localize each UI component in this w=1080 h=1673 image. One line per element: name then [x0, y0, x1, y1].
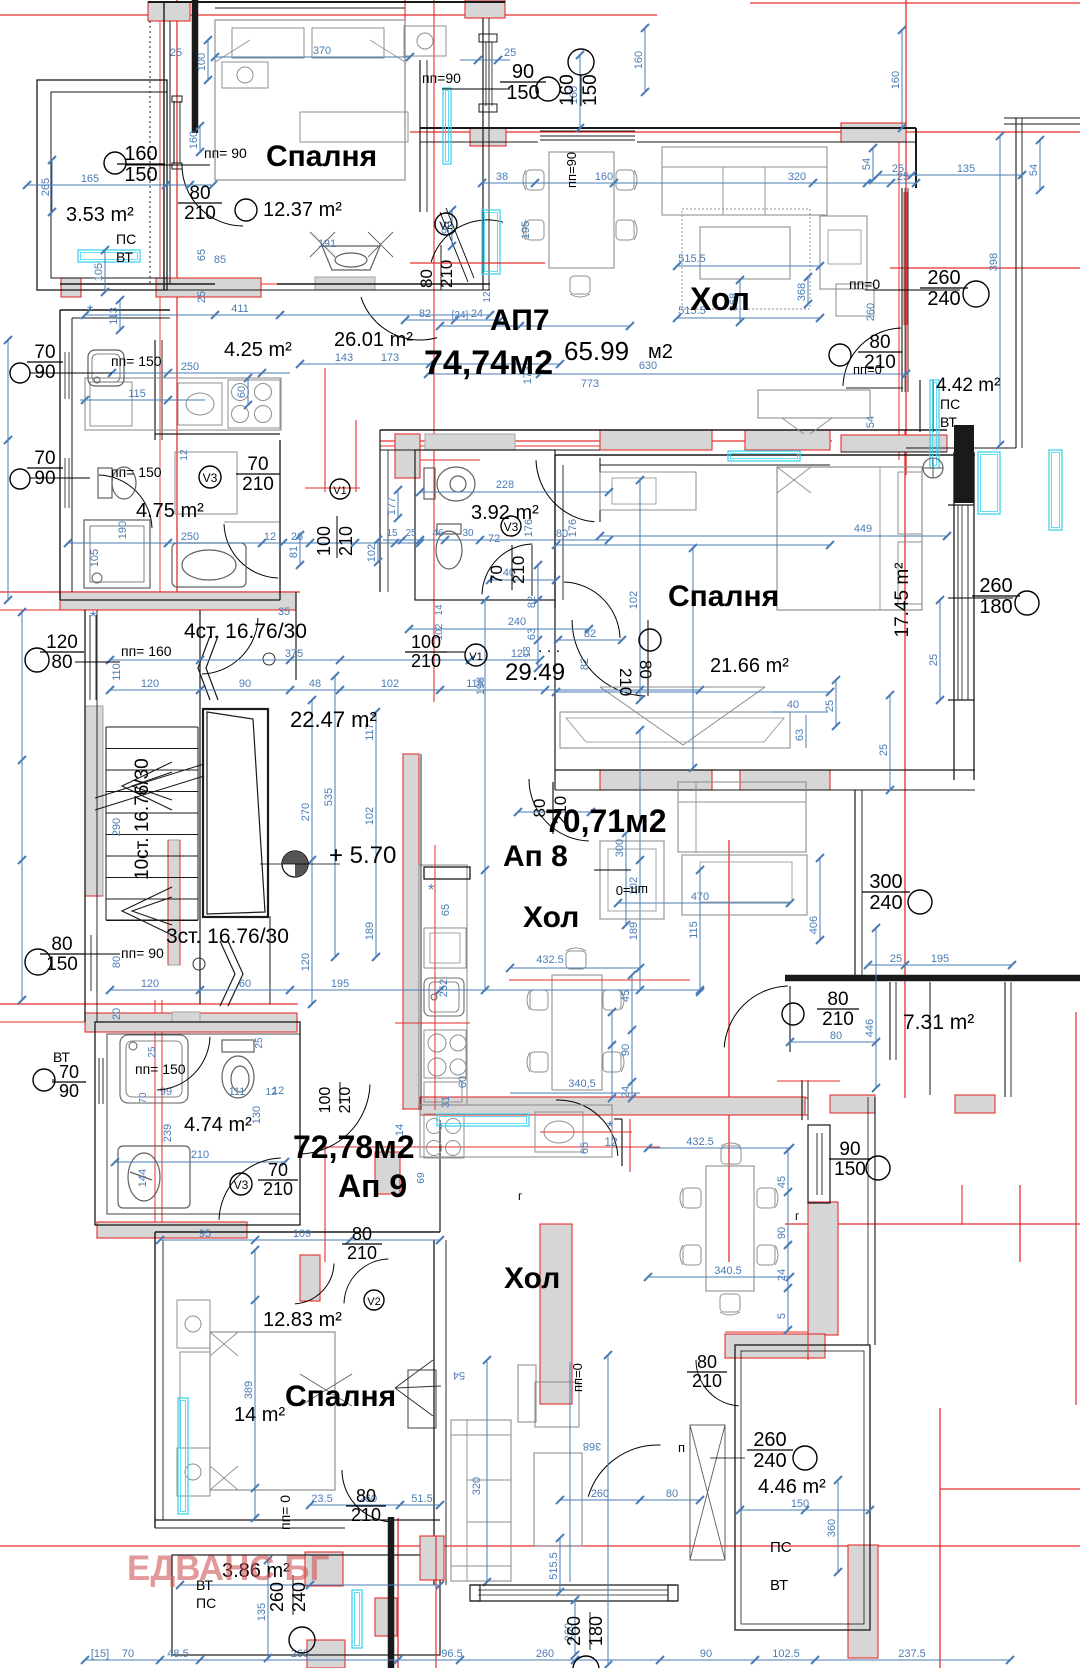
- svg-text:80: 80: [51, 652, 72, 673]
- svg-text:535: 535: [323, 788, 335, 806]
- svg-text:65: 65: [196, 249, 208, 261]
- svg-text:63: 63: [526, 628, 538, 640]
- svg-text:240: 240: [927, 288, 960, 310]
- window strips stair wall: [89, 615, 91, 700]
- svg-text:82: 82: [584, 628, 596, 640]
- svg-text:210: 210: [242, 474, 274, 495]
- svg-text:198: 198: [475, 677, 487, 695]
- svg-text:29.49: 29.49: [505, 659, 565, 686]
- svg-text:12: 12: [604, 1135, 618, 1149]
- svg-text:195: 195: [931, 953, 949, 965]
- bed AP7: [215, 20, 405, 180]
- svg-text:290: 290: [111, 818, 123, 836]
- staircase treads: [106, 726, 198, 728]
- svg-text:пп=90: пп=90: [422, 70, 461, 86]
- svg-text:368: 368: [583, 1440, 601, 1452]
- svg-text:210: 210: [191, 1149, 209, 1161]
- svg-text:210: 210: [411, 651, 441, 671]
- svg-text:ПС: ПС: [940, 396, 960, 412]
- svg-text:80: 80: [189, 183, 210, 204]
- svg-text:[15]: [15]: [91, 1648, 109, 1660]
- room 4.46 bottom right: [735, 1345, 870, 1630]
- svg-text:250: 250: [181, 361, 199, 373]
- dining set AP7: [549, 152, 614, 268]
- svg-text:65.99: 65.99: [564, 336, 629, 366]
- svg-text:4.25 m²: 4.25 m²: [224, 339, 292, 361]
- svg-text:48: 48: [309, 678, 321, 690]
- bathroom 4.75: [60, 599, 280, 601]
- svg-text:130: 130: [251, 1106, 263, 1124]
- svg-text:375: 375: [285, 648, 303, 660]
- svg-text:20: 20: [111, 1008, 123, 1020]
- svg-text:406: 406: [808, 916, 820, 934]
- svg-text:100: 100: [314, 526, 334, 556]
- shower bath1: [175, 452, 237, 514]
- svg-text:12: 12: [264, 531, 276, 543]
- svg-text:70,71м2: 70,71м2: [545, 803, 667, 839]
- corridor walls: [295, 592, 297, 680]
- svg-text:V3: V3: [504, 520, 519, 534]
- svg-text:260: 260: [979, 575, 1012, 597]
- svg-text:190: 190: [117, 521, 129, 539]
- svg-text:300: 300: [614, 839, 626, 857]
- svg-text:102: 102: [628, 591, 640, 609]
- svg-text:4.75 m²: 4.75 m²: [136, 500, 204, 522]
- svg-text:ЕДВАНС БГ: ЕДВАНС БГ: [127, 1549, 330, 1588]
- svg-text:38: 38: [496, 171, 508, 183]
- kitchen AP7: [85, 378, 281, 430]
- svg-text:111: 111: [229, 1086, 246, 1098]
- svg-text:115: 115: [688, 921, 700, 939]
- svg-text:143: 143: [335, 352, 353, 364]
- top right outer thin wall: [1015, 118, 1017, 448]
- AP8 entry door: [529, 779, 589, 841]
- svg-text:шп=0: шп=0: [616, 883, 648, 898]
- svg-text:210: 210: [822, 1009, 854, 1030]
- svg-text:п: п: [678, 1440, 685, 1455]
- svg-text:ПС: ПС: [196, 1595, 216, 1611]
- svg-text:165: 165: [81, 173, 99, 185]
- svg-text:260: 260: [753, 1429, 786, 1451]
- tv AP8 bedroom: [600, 687, 765, 745]
- svg-text:45: 45: [776, 1176, 788, 1188]
- svg-text:210: 210: [347, 1243, 377, 1263]
- svg-text:100: 100: [317, 1087, 334, 1114]
- svg-text:74,74м2: 74,74м2: [424, 344, 553, 382]
- svg-text:3ст. 16.76/30: 3ст. 16.76/30: [166, 925, 289, 948]
- svg-text:V1: V1: [333, 485, 346, 497]
- svg-text:14: 14: [394, 1124, 406, 1136]
- svg-text:260: 260: [591, 1488, 609, 1500]
- svg-text:96.5: 96.5: [441, 1648, 462, 1660]
- svg-text:135: 135: [957, 163, 975, 175]
- svg-text:252: 252: [438, 979, 450, 997]
- svg-text:144: 144: [137, 1169, 149, 1187]
- svg-text:70: 70: [138, 1092, 149, 1104]
- svg-text:35: 35: [278, 606, 290, 618]
- sofa AP7: [662, 147, 827, 215]
- svg-text:120: 120: [141, 978, 159, 990]
- blue dims top: [215, 56, 410, 58]
- svg-text:240: 240: [753, 1450, 786, 1472]
- blue dims bottom right: [740, 1509, 870, 1511]
- svg-text:70: 70: [34, 342, 55, 363]
- svg-text:80: 80: [827, 989, 848, 1010]
- svg-text:210: 210: [263, 1179, 293, 1199]
- svg-text:*: *: [87, 303, 93, 320]
- blue dims AP9 area: [160, 1239, 440, 1241]
- svg-text:24: 24: [620, 1086, 632, 1098]
- svg-text:210: 210: [437, 260, 456, 288]
- svg-text:63: 63: [794, 729, 806, 741]
- svg-text:V2: V2: [439, 220, 452, 232]
- stair arrows: [198, 636, 218, 700]
- svg-text:228: 228: [496, 479, 514, 491]
- terrace AP7 walls: [37, 80, 167, 290]
- svg-text:72: 72: [488, 533, 500, 545]
- svg-text:25: 25: [504, 47, 516, 59]
- dresser AP8: [600, 472, 696, 510]
- svg-text:25: 25: [196, 291, 208, 303]
- svg-text:160: 160: [595, 171, 613, 183]
- svg-text:V3: V3: [203, 471, 218, 485]
- svg-text:102: 102: [366, 544, 378, 562]
- AP7 hall top wall with window: [420, 127, 916, 129]
- svg-text:12: 12: [179, 449, 190, 461]
- svg-text:Хол: Хол: [523, 901, 579, 934]
- cupboard AP7 kitchen: [88, 350, 124, 386]
- svg-text:210: 210: [351, 1505, 381, 1525]
- svg-text:ВТ: ВТ: [940, 414, 957, 430]
- svg-text:102: 102: [364, 807, 376, 825]
- svg-text:80: 80: [356, 1486, 376, 1506]
- crosshair symbol: [923, 458, 943, 478]
- svg-text:109: 109: [293, 1228, 311, 1240]
- svg-text:432.5: 432.5: [536, 954, 564, 966]
- bottom window AP9 hall: [470, 1584, 677, 1586]
- svg-text:340,5: 340,5: [568, 1078, 596, 1090]
- svg-text:180: 180: [586, 1616, 606, 1646]
- svg-text:80: 80: [556, 528, 568, 540]
- svg-text:г: г: [795, 1209, 800, 1223]
- svg-text:80: 80: [697, 1352, 717, 1372]
- svg-text:ПС: ПС: [770, 1539, 792, 1556]
- sofa AP8: [678, 782, 806, 852]
- svg-text:100: 100: [411, 632, 441, 652]
- svg-text:12.37 m²: 12.37 m²: [263, 199, 342, 221]
- svg-text:411: 411: [231, 303, 249, 315]
- blue dims AP8 right: [875, 928, 877, 1088]
- svg-text:105: 105: [89, 549, 101, 567]
- svg-text:102.5: 102.5: [772, 1648, 800, 1660]
- svg-text:V1: V1: [469, 651, 482, 663]
- svg-text:24: 24: [471, 308, 483, 320]
- svg-text:115: 115: [128, 388, 146, 400]
- svg-text:4.46 m²: 4.46 m²: [758, 1476, 826, 1498]
- svg-text:260: 260: [536, 1648, 554, 1660]
- svg-text:65: 65: [579, 1142, 591, 1154]
- AP9 bathroom: [95, 1022, 300, 1225]
- level marker: [282, 851, 308, 877]
- svg-text:120: 120: [300, 953, 312, 971]
- AP8 hall/balcony walls: [854, 790, 856, 978]
- svg-text:пп=90: пп=90: [564, 152, 579, 188]
- AP7 hall bottom wall: [380, 429, 947, 431]
- red axis lines: [0, 14, 657, 16]
- svg-text:80: 80: [636, 660, 655, 679]
- svg-text:69: 69: [416, 1172, 427, 1184]
- svg-text:70: 70: [34, 448, 55, 469]
- svg-text:80: 80: [869, 332, 890, 353]
- balcony 7.31 walls: [1004, 982, 1006, 1097]
- svg-text:60: 60: [236, 386, 248, 398]
- svg-text:177: 177: [386, 497, 398, 515]
- toilet bath2: [424, 467, 475, 501]
- bench AP7 bottom: [758, 390, 870, 418]
- carpet AP7: [682, 209, 810, 309]
- svg-text:25: 25: [170, 47, 182, 59]
- svg-text:398: 398: [988, 253, 1000, 271]
- svg-text:85: 85: [214, 254, 226, 266]
- svg-text:515.5: 515.5: [678, 253, 706, 265]
- cabinet AP8 hall left: [600, 841, 664, 919]
- svg-text:150: 150: [580, 74, 601, 106]
- svg-text:15: 15: [386, 528, 398, 539]
- gray wall blocks: [148, 2, 190, 21]
- svg-text:АП7: АП7: [490, 304, 550, 337]
- svg-text:51.5: 51.5: [411, 1493, 432, 1505]
- svg-text:Ап 8: Ап 8: [503, 840, 568, 873]
- tv cabinet AP9: [518, 1365, 536, 1422]
- svg-text:14 m²: 14 m²: [234, 1404, 285, 1426]
- svg-text:90: 90: [512, 61, 534, 83]
- svg-text:Спалня: Спалня: [285, 1380, 396, 1413]
- svg-text:260: 260: [865, 303, 877, 321]
- svg-text:160: 160: [633, 51, 645, 69]
- svg-text:95: 95: [199, 1228, 211, 1240]
- svg-text:м2: м2: [648, 341, 673, 363]
- svg-text:22.47 m²: 22.47 m²: [290, 707, 377, 732]
- AP7 bedroom walls: [148, 1, 505, 3]
- svg-text:пп= 90: пп= 90: [204, 145, 247, 161]
- svg-text:320: 320: [471, 1477, 483, 1495]
- bedside tables: [222, 62, 268, 88]
- svg-text:389: 389: [243, 1381, 255, 1399]
- svg-text:105: 105: [93, 263, 105, 281]
- svg-text:4.74 m²: 4.74 m²: [184, 1114, 252, 1136]
- svg-text:102: 102: [381, 678, 399, 690]
- svg-text:90: 90: [839, 1139, 860, 1160]
- svg-text:470: 470: [691, 891, 709, 903]
- svg-text:пп=0: пп=0: [570, 1363, 585, 1392]
- svg-text:+ 5.70: + 5.70: [329, 842, 396, 869]
- dining set AP9: [706, 1166, 754, 1291]
- svg-text:210: 210: [336, 526, 356, 556]
- svg-text:368: 368: [796, 283, 808, 301]
- kitchen AP8: [419, 865, 467, 1105]
- svg-text:80: 80: [51, 934, 72, 955]
- svg-text:30: 30: [462, 528, 474, 539]
- tv cabinet AP8: [682, 855, 807, 915]
- svg-text:189: 189: [364, 922, 376, 940]
- svg-text:90: 90: [239, 678, 251, 690]
- svg-text:80: 80: [352, 1224, 372, 1244]
- svg-text:45: 45: [620, 990, 632, 1002]
- thick bar middle right: [785, 975, 1080, 982]
- blue dims AP8 bedroom: [600, 535, 947, 537]
- svg-text:432.5: 432.5: [686, 1136, 714, 1148]
- toilet AP9: [222, 1040, 254, 1098]
- svg-text:25: 25: [254, 1037, 265, 1049]
- svg-text:210: 210: [864, 352, 896, 373]
- dining set AP8: [552, 975, 602, 1090]
- armchair AP9 bedroom: [408, 1370, 436, 1428]
- svg-text:17.45 m²: 17.45 m²: [892, 563, 913, 638]
- svg-text:г: г: [518, 1189, 523, 1203]
- svg-text:237.5: 237.5: [898, 1648, 926, 1660]
- svg-text:210: 210: [616, 668, 635, 696]
- stair cut lines: [95, 776, 204, 810]
- svg-text:3.53 m²: 3.53 m²: [66, 204, 134, 226]
- svg-text:48.5: 48.5: [167, 1648, 188, 1660]
- svg-text:25: 25: [928, 654, 940, 666]
- svg-text:300: 300: [869, 871, 902, 893]
- svg-text:25: 25: [890, 953, 902, 965]
- toilet bath1: [98, 467, 136, 499]
- svg-text:80: 80: [417, 269, 436, 288]
- elevator: [203, 709, 268, 917]
- bed AP8: [777, 467, 922, 610]
- svg-text:370: 370: [313, 45, 331, 57]
- coffee table AP9: [534, 1453, 582, 1546]
- svg-text:120: 120: [141, 678, 159, 690]
- svg-text:90: 90: [620, 1044, 632, 1056]
- svg-text:Хол: Хол: [504, 1262, 560, 1295]
- svg-text:160: 160: [124, 143, 157, 165]
- svg-text:449: 449: [854, 523, 872, 535]
- svg-text:12: 12: [482, 291, 493, 303]
- sink bath2: [436, 524, 462, 569]
- svg-text:191: 191: [318, 238, 336, 250]
- svg-text:189: 189: [628, 922, 640, 940]
- sink AP9: [118, 1146, 190, 1208]
- svg-text:515.5: 515.5: [548, 1552, 560, 1580]
- kitchen AP9 end wall: [621, 1119, 623, 1166]
- svg-text:82: 82: [579, 658, 591, 670]
- svg-text:25: 25: [147, 1046, 158, 1058]
- svg-text:пп= 0: пп= 0: [277, 1495, 293, 1530]
- svg-text:210: 210: [692, 1371, 722, 1391]
- svg-text:100: 100: [196, 53, 208, 71]
- svg-text:25: 25: [824, 700, 836, 712]
- svg-text:120: 120: [46, 632, 78, 653]
- svg-text:82: 82: [419, 308, 431, 320]
- svg-text:446: 446: [864, 1019, 876, 1037]
- svg-text:240: 240: [869, 892, 902, 914]
- svg-text:Хол: Хол: [690, 281, 750, 317]
- svg-text:14: 14: [434, 604, 445, 616]
- window right wall AP9: [808, 1125, 830, 1203]
- svg-text:180: 180: [979, 596, 1012, 618]
- svg-text:260: 260: [927, 267, 960, 289]
- svg-text:265: 265: [40, 178, 52, 196]
- svg-text:195: 195: [331, 978, 349, 990]
- shower AP9 bath: [120, 1035, 188, 1103]
- svg-text:24: 24: [776, 1269, 788, 1281]
- svg-text:54: 54: [1028, 164, 1040, 176]
- radiators: [78, 250, 140, 262]
- svg-text:60: 60: [457, 1076, 469, 1088]
- svg-text:360: 360: [826, 1519, 838, 1537]
- svg-text:5: 5: [776, 1313, 788, 1319]
- svg-text:160: 160: [188, 131, 200, 149]
- svg-text:10ст. 16.76/30: 10ст. 16.76/30: [132, 758, 153, 880]
- wall kitchen/hall: [419, 60, 421, 212]
- svg-text:80: 80: [666, 1488, 678, 1500]
- svg-text:26.01 m²: 26.01 m²: [334, 329, 413, 351]
- svg-text:70: 70: [122, 1648, 134, 1660]
- svg-text:239: 239: [162, 1124, 174, 1142]
- svg-text:23.5: 23.5: [311, 1493, 332, 1505]
- thick bar bottom: [388, 1517, 395, 1668]
- svg-text:210: 210: [184, 203, 216, 224]
- svg-text:40: 40: [787, 699, 799, 711]
- svg-text:ВТ: ВТ: [116, 249, 133, 265]
- svg-text:773: 773: [581, 378, 599, 390]
- svg-text:[24]: [24]: [452, 310, 469, 321]
- svg-text:81: 81: [288, 546, 300, 558]
- right mid outer wall: [874, 1097, 876, 1345]
- svg-text:90: 90: [59, 1081, 79, 1101]
- svg-text:54: 54: [453, 1369, 465, 1381]
- svg-text:*: *: [607, 1119, 613, 1136]
- svg-text:V2: V2: [367, 1296, 380, 1308]
- svg-text:*: *: [428, 882, 434, 899]
- sink bath1: [172, 543, 246, 587]
- AP7 hall right window wall: [901, 188, 903, 392]
- svg-text:65: 65: [440, 904, 452, 916]
- svg-text:176: 176: [567, 519, 579, 537]
- bathroom 3.92: [415, 450, 555, 600]
- svg-text:113: 113: [108, 307, 120, 325]
- svg-text:25: 25: [892, 163, 904, 175]
- svg-text:12.83 m²: 12.83 m²: [263, 1309, 342, 1331]
- svg-text:ПС: ПС: [116, 231, 136, 247]
- svg-text:пп= 150: пп= 150: [111, 353, 162, 369]
- svg-text:150: 150: [791, 1498, 809, 1510]
- svg-text:4.42 m²: 4.42 m²: [936, 375, 1000, 396]
- doors: [182, 165, 243, 226]
- svg-text:160: 160: [557, 74, 578, 106]
- svg-text:12: 12: [272, 1085, 284, 1097]
- stair left wall: [84, 610, 86, 1022]
- bottom dim chain: [85, 1659, 1010, 1661]
- thick bar top: [192, 0, 199, 133]
- AP8 bedroom: [555, 454, 975, 456]
- svg-text:240: 240: [508, 616, 526, 628]
- svg-text:46: 46: [432, 528, 444, 539]
- svg-text:54: 54: [865, 416, 877, 428]
- armchair AP7 bedroom: [322, 246, 380, 270]
- svg-text:Спалня: Спалня: [668, 580, 779, 613]
- svg-text:13: 13: [522, 646, 533, 658]
- svg-text:80: 80: [830, 1030, 842, 1042]
- tv cabinet AP7: [820, 216, 867, 289]
- svg-text:260: 260: [564, 1616, 584, 1646]
- svg-text:54: 54: [861, 158, 873, 170]
- svg-text:270: 270: [300, 803, 312, 821]
- svg-text:31: 31: [440, 1096, 452, 1108]
